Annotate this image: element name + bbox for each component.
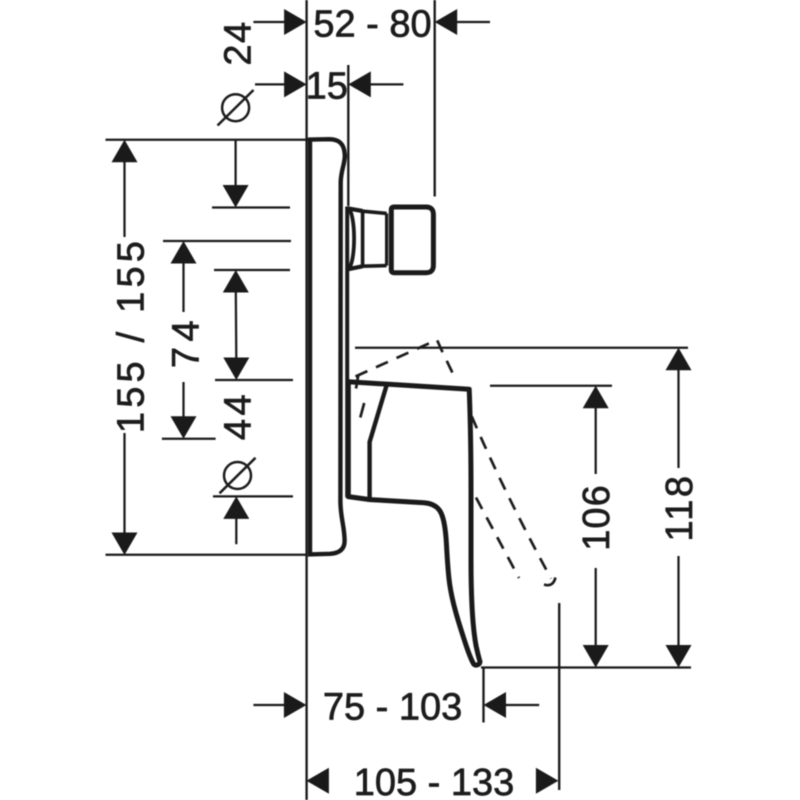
svg-text:106: 106 (576, 484, 618, 550)
svg-text:44: 44 (218, 391, 260, 440)
svg-text:75 - 103: 75 - 103 (323, 686, 462, 728)
svg-text:24: 24 (218, 20, 260, 65)
svg-text:105 - 133: 105 - 133 (354, 762, 515, 800)
svg-text:52 - 80: 52 - 80 (313, 3, 431, 45)
svg-text:118: 118 (659, 473, 701, 541)
svg-text:155 / 155: 155 / 155 (111, 237, 153, 433)
svg-text:74: 74 (166, 315, 208, 368)
svg-text:15: 15 (306, 66, 348, 108)
